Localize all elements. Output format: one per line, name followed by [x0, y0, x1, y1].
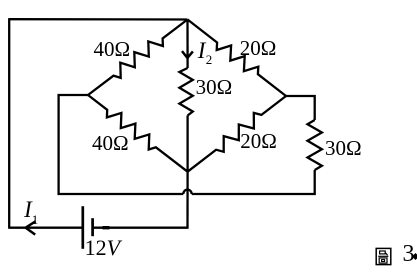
battery V1 long plate: [81, 206, 84, 249]
wire outer-left side: top-left corner down to battery rail: [8, 18, 10, 228]
resistor R1 40ohm top-left (node L to node A): [88, 20, 188, 96]
label 20ohm top: [240, 36, 277, 61]
wire inner-left branch: node L left then down to bottom rail corner: [59, 95, 88, 195]
wire top rail: outer top-left corner to top node A: [9, 18, 187, 21]
label 12V battery value: [85, 235, 120, 261]
resistor R4 20ohm bottom-right (node B to node R): [188, 96, 286, 172]
wire middle branch upper: node A down to middle resistor: [186, 20, 188, 69]
wire middle branch lower: middle resistor down to node B: [186, 116, 188, 172]
wire central vertical: bottom node B down to battery rail: [186, 172, 188, 228]
hop: bottom rail jumps over the central vertical wire: [183, 190, 191, 194]
label I1 current: [24, 197, 32, 223]
label I2 current: [198, 38, 206, 64]
mark: small cut-off bullet at right edge: [412, 253, 417, 260]
wire right branch top: node R right then down to resistor: [286, 96, 315, 120]
label figure number 3: [403, 241, 415, 268]
wire battery rail right: short plate to central vertical: [93, 227, 189, 229]
label 40ohm bottom: [92, 131, 129, 156]
resistor R5 30ohm middle vertical: [179, 68, 192, 116]
arrowhead I1: open-V arrow on battery rail pointing left: [26, 221, 36, 234]
label 30ohm right: [325, 136, 362, 161]
battery V1 short plate: [91, 218, 94, 236]
label figure caption CJK glyph 'tu' (figure) drawn as SVG: [375, 247, 392, 267]
wire bottom rail right segment: hop to right branch corner and up: [192, 170, 315, 194]
resistor R3 40ohm bottom-left (node L to node B): [88, 95, 188, 172]
label 30ohm middle: [196, 75, 233, 100]
resistor R6 30ohm right vertical: [308, 120, 322, 170]
tick mark on rail right of battery: [103, 226, 110, 229]
wire bottom rail left segment: inner-left corner to hop: [58, 193, 184, 195]
wire battery rail left: corner to battery long plate: [8, 227, 83, 229]
arrowhead I2: open-V arrow on middle branch pointing down: [182, 51, 193, 58]
label 20ohm bottom: [240, 129, 277, 154]
resistor R2 20ohm top-right (node A to node R): [188, 20, 287, 97]
label 40ohm top: [94, 37, 131, 62]
